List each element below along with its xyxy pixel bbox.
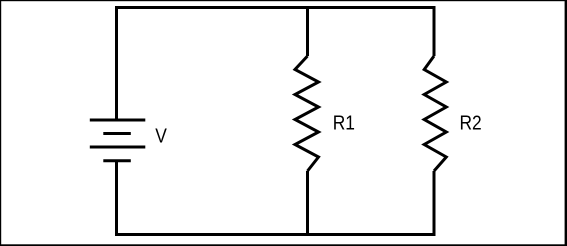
svg-text:R2: R2 [460,111,482,133]
svg-text:V: V [155,124,167,146]
svg-text:R1: R1 [333,111,355,133]
